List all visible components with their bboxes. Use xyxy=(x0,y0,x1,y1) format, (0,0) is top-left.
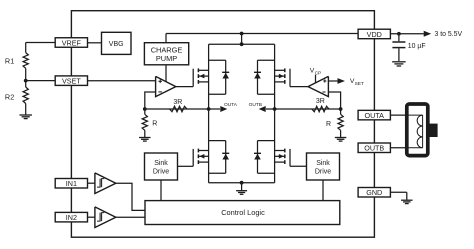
svg-text:3R: 3R xyxy=(173,99,182,106)
svg-text:OUTB: OUTB xyxy=(249,102,262,108)
svg-text:10 µF: 10 µF xyxy=(408,43,426,50)
svg-text:R1: R1 xyxy=(5,56,14,65)
svg-text:VSET: VSET xyxy=(62,77,81,86)
svg-text:IN1: IN1 xyxy=(66,179,77,188)
svg-text:Drive: Drive xyxy=(153,169,169,176)
svg-text:PUMP: PUMP xyxy=(156,54,177,63)
svg-text:IN2: IN2 xyxy=(66,213,77,222)
svg-text:R: R xyxy=(326,121,331,128)
svg-text:3 to 5.5V: 3 to 5.5V xyxy=(435,31,463,38)
svg-text:SET: SET xyxy=(355,81,364,87)
svg-text:OUTB: OUTB xyxy=(364,144,384,153)
svg-text:GND: GND xyxy=(366,188,382,197)
svg-text:R: R xyxy=(152,121,157,128)
svg-text:Drive: Drive xyxy=(315,169,331,176)
svg-text:VBG: VBG xyxy=(109,41,124,48)
svg-text:OUTA: OUTA xyxy=(365,111,385,120)
svg-text:VDD: VDD xyxy=(367,30,382,39)
svg-text:CP: CP xyxy=(315,70,322,76)
svg-text:3R: 3R xyxy=(316,98,325,105)
svg-text:R2: R2 xyxy=(5,93,14,102)
svg-text:Sink: Sink xyxy=(316,160,330,167)
svg-text:Sink: Sink xyxy=(154,160,168,167)
svg-text:VREF: VREF xyxy=(62,38,82,47)
svg-text:OUTA: OUTA xyxy=(224,102,238,108)
svg-text:Control Logic: Control Logic xyxy=(221,208,265,217)
